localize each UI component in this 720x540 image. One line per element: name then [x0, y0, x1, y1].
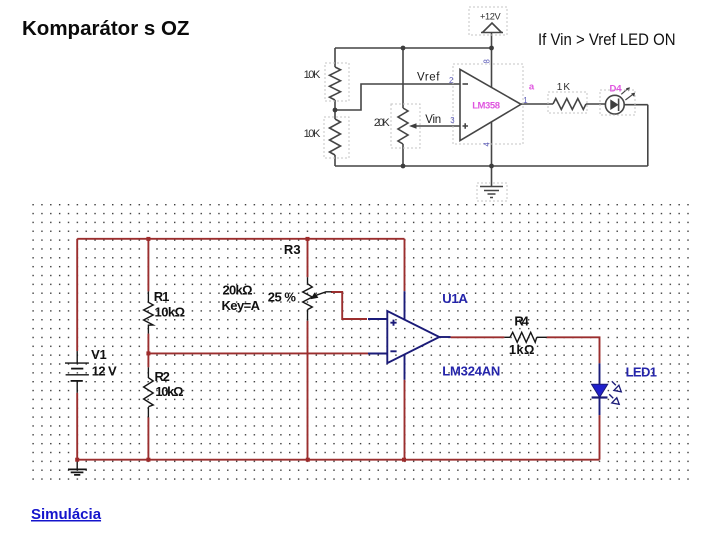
svg-text:Vref: Vref: [417, 72, 440, 84]
svg-text:1: 1: [523, 96, 527, 105]
svg-text:R1: R1: [154, 289, 170, 304]
svg-text:10K: 10K: [304, 128, 321, 140]
svg-text:V1: V1: [91, 347, 107, 362]
svg-text:Key=A: Key=A: [222, 298, 261, 313]
svg-text:Komparátor s OZ: Komparátor s OZ: [22, 17, 189, 40]
svg-text:If Vin > Vref LED ON: If Vin > Vref LED ON: [538, 30, 676, 49]
svg-text:LM324AN: LM324AN: [442, 364, 500, 379]
svg-text:3: 3: [450, 116, 454, 125]
svg-text:25 %: 25 %: [268, 289, 297, 304]
svg-text:+12V: +12V: [480, 12, 502, 22]
svg-text:Simulácia: Simulácia: [31, 506, 102, 523]
svg-text:a: a: [529, 81, 535, 92]
svg-text:10kΩ: 10kΩ: [155, 305, 186, 320]
svg-text:LM358: LM358: [472, 100, 500, 111]
svg-text:4: 4: [483, 142, 492, 147]
svg-text:R2: R2: [155, 369, 170, 384]
svg-text:D4: D4: [610, 84, 623, 95]
svg-text:1kΩ: 1kΩ: [509, 342, 535, 357]
svg-text:8: 8: [483, 59, 492, 63]
svg-text:Vin: Vin: [425, 114, 441, 126]
svg-text:20kΩ: 20kΩ: [223, 283, 253, 298]
svg-text:LED1: LED1: [626, 365, 657, 380]
svg-text:U1A: U1A: [442, 291, 468, 306]
svg-text:R3: R3: [284, 242, 301, 257]
svg-text:20K: 20K: [374, 117, 390, 129]
svg-text:10K: 10K: [304, 69, 321, 81]
svg-text:1K: 1K: [557, 82, 571, 93]
svg-text:2: 2: [449, 76, 453, 85]
svg-text:12 V: 12 V: [92, 364, 117, 379]
svg-text:R4: R4: [514, 314, 529, 329]
svg-text:10kΩ: 10kΩ: [155, 384, 183, 399]
